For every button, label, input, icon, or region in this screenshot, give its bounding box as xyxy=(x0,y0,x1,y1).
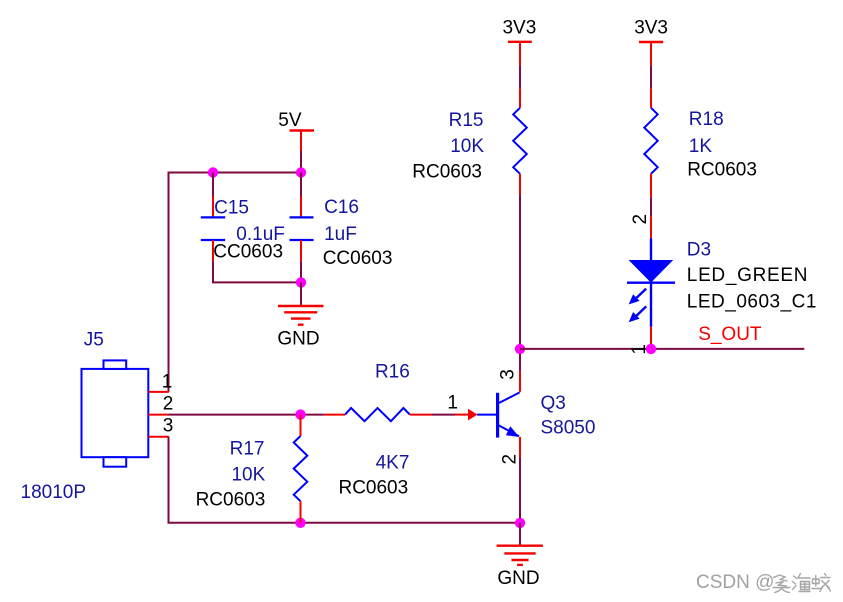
wire to GND symbol xyxy=(300,282,302,305)
svg-text:R16: R16 xyxy=(375,361,410,382)
svg-text:GND: GND xyxy=(277,329,319,350)
svg-text:Q3: Q3 xyxy=(541,393,566,414)
svg-text:RC0603: RC0603 xyxy=(196,490,266,511)
power port 3V3 (R18) xyxy=(634,18,668,66)
junction node base divider top xyxy=(295,409,305,419)
pin Q3 collector red xyxy=(519,371,521,392)
wire J5 pin3 down xyxy=(168,437,170,523)
junction node collector/S_OUT xyxy=(515,344,525,354)
svg-text:J5: J5 xyxy=(84,329,104,350)
wire emitter node to GND symbol xyxy=(519,523,521,546)
ground GND (emitter) xyxy=(497,546,543,589)
svg-text:18010P: 18010P xyxy=(21,482,87,503)
wire top horizontal rail xyxy=(169,172,302,174)
svg-text:3V3: 3V3 xyxy=(634,18,668,39)
svg-text:RC0603: RC0603 xyxy=(338,478,408,499)
svg-text:LED_GREEN: LED_GREEN xyxy=(687,265,808,286)
svg-text:GND: GND xyxy=(497,568,539,589)
wire bottom horizontal rail xyxy=(168,522,521,524)
junction node at C16 top xyxy=(296,167,306,177)
svg-text:1: 1 xyxy=(162,371,173,392)
svg-text:CC0603: CC0603 xyxy=(323,248,393,269)
svg-text:1: 1 xyxy=(447,393,458,414)
svg-text:R17: R17 xyxy=(230,439,265,460)
junction node LED to S_OUT xyxy=(646,344,656,354)
svg-text:4K7: 4K7 xyxy=(376,452,410,473)
wire Q3 emitter to GND rail xyxy=(519,457,521,523)
wire C15 bottom to GND rail xyxy=(213,261,301,282)
svg-text:D3: D3 xyxy=(687,240,711,261)
connector J5 xyxy=(82,360,149,466)
capacitor C16 xyxy=(290,173,314,283)
power port 5V xyxy=(278,110,314,151)
wire R15 to collector node xyxy=(519,195,521,349)
svg-text:R18: R18 xyxy=(689,109,724,130)
svg-text:1K: 1K xyxy=(689,136,713,157)
wire R18 to LED xyxy=(650,197,652,216)
junction node emitter GND xyxy=(515,518,525,528)
resistor R15 xyxy=(513,88,527,194)
svg-text:3: 3 xyxy=(163,416,174,437)
svg-text:10K: 10K xyxy=(450,136,484,157)
LED D3 xyxy=(627,216,675,349)
svg-text:CSDN @: CSDN @ xyxy=(696,572,774,593)
pin 1 of J5 xyxy=(148,391,169,393)
transistor Q3 xyxy=(455,392,520,437)
junction node at C15 top xyxy=(208,167,218,177)
pin 3 of J5 xyxy=(148,436,169,438)
svg-text:5V: 5V xyxy=(278,110,302,131)
watermark CJK glyphs xyxy=(773,574,831,593)
pin Q3 emitter red xyxy=(519,437,521,457)
svg-text:3V3: 3V3 xyxy=(502,18,536,39)
wire S_OUT horizontal xyxy=(520,348,804,350)
ground GND (capacitors) xyxy=(277,306,323,350)
svg-text:3: 3 xyxy=(498,369,519,380)
wire 5V stub to rail xyxy=(300,151,302,173)
wire J5 pin2 to R16 xyxy=(169,414,324,416)
pin 2 of J5 xyxy=(148,414,168,416)
capacitor C15 xyxy=(201,173,225,262)
svg-text:2: 2 xyxy=(500,454,521,465)
wire R16 to Q3 base xyxy=(432,414,455,416)
svg-text:2: 2 xyxy=(630,214,651,225)
power port 3V3 (R15) xyxy=(502,18,536,66)
svg-text:CC0603: CC0603 xyxy=(213,242,283,263)
svg-text:LED_0603_C1: LED_0603_C1 xyxy=(687,292,817,313)
junction node caps GND rail xyxy=(296,277,306,287)
svg-text:C16: C16 xyxy=(324,197,359,218)
svg-text:R15: R15 xyxy=(449,110,484,131)
svg-text:S8050: S8050 xyxy=(541,418,596,439)
svg-text:10K: 10K xyxy=(231,465,265,486)
wire Q3 collector to node xyxy=(519,349,521,371)
svg-text:C15: C15 xyxy=(214,198,249,219)
wire 3V3 to R18 xyxy=(650,65,652,88)
svg-text:RC0603: RC0603 xyxy=(412,162,482,183)
junction node base divider bottom xyxy=(295,518,305,528)
svg-text:1uF: 1uF xyxy=(324,224,357,245)
resistor R17 xyxy=(294,415,308,523)
svg-text:S_OUT: S_OUT xyxy=(698,324,762,345)
resistor R16 xyxy=(324,408,432,421)
svg-text:2: 2 xyxy=(163,393,174,414)
wire left vertical to J5 pin1 xyxy=(168,172,170,392)
svg-text:RC0603: RC0603 xyxy=(687,160,757,181)
wire 3V3 to R15 xyxy=(519,65,521,88)
resistor R18 xyxy=(644,88,657,197)
